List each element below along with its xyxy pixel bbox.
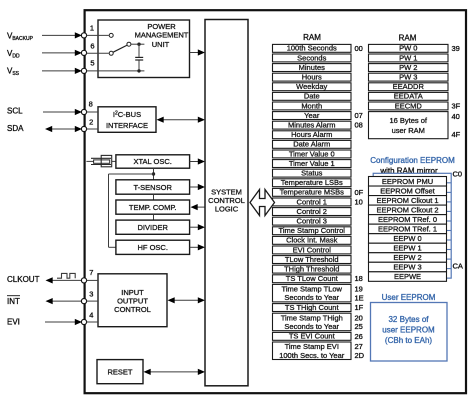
address 26 <box>355 332 363 341</box>
address 0F <box>355 188 364 197</box>
address 27 <box>355 342 363 351</box>
wire pin8 to I2C block <box>86 111 98 113</box>
svg-text:1F: 1F <box>355 303 364 312</box>
register 100th Seconds <box>273 44 352 53</box>
svg-text:19: 19 <box>355 285 363 294</box>
I2C-bus interface block <box>98 107 156 133</box>
register PW 2 <box>369 63 449 72</box>
register PW 1 <box>369 53 449 62</box>
svg-text:TS EVI Count: TS EVI Count <box>289 332 336 341</box>
wire VBACKUP input <box>42 32 82 38</box>
pin 4 circle <box>81 319 86 324</box>
svg-text:2: 2 <box>89 117 93 126</box>
wire pin7 to IOC <box>86 279 98 281</box>
register Date <box>273 92 352 101</box>
wire INT output <box>46 298 85 304</box>
address 00 <box>355 44 363 53</box>
register Seconds <box>273 53 352 62</box>
svg-text:SDA: SDA <box>7 124 24 133</box>
svg-text:CLKOUT: CLKOUT <box>7 275 40 284</box>
svg-text:Year: Year <box>304 111 320 120</box>
pin label SCL <box>7 107 23 116</box>
EEPROM register EEPROM TRef. 1 <box>369 224 447 234</box>
wire EVI input <box>45 319 82 325</box>
svg-text:User EEPROM: User EEPROM <box>382 293 436 302</box>
svg-text:CA: CA <box>453 262 463 271</box>
register EEDATA <box>369 92 449 101</box>
EEPROM register EEPROM TRef. 0 <box>369 215 447 225</box>
svg-text:25: 25 <box>355 322 363 331</box>
svg-text:RESET: RESET <box>107 367 132 376</box>
register TLow Threshold <box>273 255 352 264</box>
svg-text:4F: 4F <box>452 130 461 139</box>
svg-text:0F: 0F <box>355 188 364 197</box>
svg-text:1: 1 <box>90 24 94 33</box>
pin label VBACKUP <box>7 32 34 43</box>
svg-text:TLow Threshold: TLow Threshold <box>285 255 339 264</box>
pin label SDA <box>7 124 24 133</box>
EEPROM register EEPW 2 <box>369 253 447 263</box>
address 4F <box>452 130 461 139</box>
pin number 4 <box>89 310 93 319</box>
svg-text:EEPROM Offset: EEPROM Offset <box>380 186 435 195</box>
switch contact VDD <box>86 51 113 55</box>
register Time Stamp THigh / Seconds to Year <box>273 313 352 331</box>
pin label VSS <box>7 66 20 77</box>
wire VDD input <box>42 50 82 56</box>
XTAL OSC block <box>116 155 190 168</box>
EEPROM register EEPW 1 <box>369 243 447 253</box>
svg-text:EEPROM Clkout 1: EEPROM Clkout 1 <box>376 196 438 205</box>
pin number 7 <box>89 268 93 277</box>
address 1F <box>355 303 364 312</box>
pin label CLKOUT <box>7 275 40 284</box>
svg-text:18: 18 <box>355 274 363 283</box>
svg-text:INT: INT <box>7 297 20 306</box>
pin label INT (overline) <box>7 296 20 306</box>
register Temperature LSBs <box>273 178 352 187</box>
svg-text:EVI Control: EVI Control <box>293 245 332 254</box>
svg-text:5: 5 <box>90 59 94 68</box>
register EEADDR <box>369 82 449 91</box>
svg-text:Minutes Alarm: Minutes Alarm <box>288 121 336 130</box>
arrow IOC to system control logic bidirectional <box>168 297 206 303</box>
svg-text:6: 6 <box>90 41 94 50</box>
svg-text:Timer Value 1: Timer Value 1 <box>289 159 335 168</box>
register Time Stamp Control <box>273 226 352 235</box>
svg-text:XTAL OSC.: XTAL OSC. <box>134 157 172 166</box>
svg-text:T-SENSOR: T-SENSOR <box>134 183 173 192</box>
address 2D <box>355 351 365 360</box>
pin label VDD <box>7 49 20 60</box>
wire pin2 to I2C block <box>86 128 98 130</box>
svg-text:PW 0: PW 0 <box>399 44 417 53</box>
svg-text:UNIT: UNIT <box>152 40 170 49</box>
svg-text:EEPW 0: EEPW 0 <box>393 234 421 243</box>
pin 5 circle <box>81 68 86 73</box>
register Status <box>273 169 352 178</box>
register Hours <box>273 73 352 82</box>
register Weekday <box>273 82 352 91</box>
register Control 3 <box>273 217 352 226</box>
address 18 <box>355 274 363 283</box>
arrow DIVIDER to system control logic <box>190 224 205 230</box>
register EECMD <box>369 101 449 110</box>
svg-text:Temperature LSBs: Temperature LSBs <box>281 178 343 187</box>
svg-text:32 Bytes of: 32 Bytes of <box>388 315 429 324</box>
svg-text:10: 10 <box>355 197 363 206</box>
HF OSC block <box>116 240 190 254</box>
wire junction to HF OSC <box>109 174 154 247</box>
svg-text:Hours Alarm: Hours Alarm <box>291 130 332 139</box>
svg-text:EEPROM Clkout 2: EEPROM Clkout 2 <box>376 205 438 214</box>
address C0 <box>453 170 463 179</box>
EEPROM register EEPROM PMU <box>369 177 447 187</box>
pin 8 circle <box>81 109 86 114</box>
register Hours Alarm <box>273 130 352 139</box>
EEPROM register EEPWE <box>369 272 447 282</box>
svg-text:Month: Month <box>301 101 322 110</box>
svg-text:I2C-BUS: I2C-BUS <box>113 110 141 119</box>
svg-text:Seconds to Year: Seconds to Year <box>284 293 339 302</box>
arrow system control logic to TEMP COMP <box>191 204 206 210</box>
register Time Stamp EVI / 100th Secs. to Year <box>273 342 352 360</box>
svg-text:16 Bytes of: 16 Bytes of <box>389 116 427 125</box>
register Month <box>273 101 352 110</box>
svg-text:00: 00 <box>355 44 363 53</box>
svg-text:HF OSC.: HF OSC. <box>137 243 167 252</box>
T-SENSOR block <box>116 180 190 194</box>
reset block <box>97 360 143 384</box>
switch contact VBACKUP <box>86 33 113 37</box>
svg-text:RAM: RAM <box>303 33 321 42</box>
address 40 <box>452 112 460 121</box>
svg-text:Date: Date <box>304 92 320 101</box>
register Time Stamp TLow / Seconds to Year <box>273 284 352 302</box>
arrow I2C to system control logic bidirectional <box>157 117 206 123</box>
register EVI Control <box>273 245 352 254</box>
svg-text:TS TLow Count: TS TLow Count <box>286 274 339 283</box>
register Date Alarm <box>273 140 352 149</box>
EEPROM register EEPW 0 <box>369 234 447 244</box>
svg-text:EEPW 1: EEPW 1 <box>393 244 421 253</box>
chip outline <box>85 10 466 393</box>
register Control 2 <box>273 207 352 216</box>
arrow XTAL OSC to system control logic <box>190 158 205 164</box>
svg-text:PW 1: PW 1 <box>399 53 417 62</box>
svg-text:Time Stamp Control: Time Stamp Control <box>279 226 346 235</box>
pin number 6 <box>90 41 94 50</box>
pin 1 circle <box>81 33 86 38</box>
pin 2 circle <box>81 126 86 131</box>
svg-text:2D: 2D <box>355 351 365 360</box>
wire VSS inside PMU <box>86 69 144 72</box>
register Clock Int. Mask <box>273 236 352 245</box>
svg-text:8: 8 <box>89 99 93 108</box>
pin number 5 <box>90 59 94 68</box>
svg-text:Seconds to Year: Seconds to Year <box>284 322 339 331</box>
svg-text:C0: C0 <box>453 170 463 179</box>
address 08 <box>355 121 363 130</box>
address 20 <box>355 313 363 322</box>
quartz crystal symbol <box>86 155 116 166</box>
RAM title (registers) <box>303 33 321 42</box>
svg-text:LOGIC: LOGIC <box>215 205 239 214</box>
arrow HF OSC to system control logic <box>190 244 205 250</box>
register PW 0 <box>369 44 449 53</box>
svg-text:Time Stamp EVI: Time Stamp EVI <box>285 342 339 351</box>
system control logic block <box>205 20 248 386</box>
register Minutes Alarm <box>273 121 352 130</box>
svg-text:EEADDR: EEADDR <box>393 82 425 91</box>
svg-text:MANAGEMENT: MANAGEMENT <box>135 30 189 39</box>
svg-text:40: 40 <box>452 112 460 121</box>
address 10 <box>355 197 363 206</box>
svg-text:Timer Value 0: Timer Value 0 <box>289 149 335 158</box>
input output control block <box>98 274 167 327</box>
svg-text:EEDATA: EEDATA <box>394 92 423 101</box>
register TS EVI Count <box>273 332 352 341</box>
svg-text:20: 20 <box>355 313 363 322</box>
svg-text:TEMP. COMP.: TEMP. COMP. <box>129 203 177 212</box>
bidirectional bus arrow SCL-RAM <box>250 190 275 216</box>
address 1E <box>355 293 364 302</box>
with RAM mirror subtitle <box>379 166 438 175</box>
pin number 2 <box>89 117 93 126</box>
wire VSS input <box>42 68 82 74</box>
wire XTAL to T-SENSOR with junction <box>152 168 155 180</box>
svg-text:PW 2: PW 2 <box>399 63 417 72</box>
register Timer Value 0 <box>273 149 352 158</box>
user EEPROM block <box>371 303 448 362</box>
svg-text:(CBh to EAh): (CBh to EAh) <box>385 336 432 345</box>
register THigh Threshold <box>273 265 352 274</box>
pin label EVI <box>7 318 20 327</box>
EEPROM mirror shadow box <box>373 173 451 278</box>
wire pin3 to IOC <box>86 300 98 302</box>
register Control 1 <box>273 197 352 206</box>
wire TEMP COMP to DIVIDER <box>153 214 155 220</box>
power management unit block <box>98 20 190 78</box>
backup capacitor <box>135 44 143 71</box>
EEPROM register EEPW 3 <box>369 262 447 272</box>
svg-text:Weekday: Weekday <box>296 82 327 91</box>
svg-text:Control 2: Control 2 <box>297 207 327 216</box>
User EEPROM title <box>382 293 436 302</box>
svg-text:27: 27 <box>355 342 363 351</box>
TEMP COMP block <box>116 200 190 214</box>
pin 6 circle <box>81 50 86 55</box>
svg-text:EEPROM TRef. 0: EEPROM TRef. 0 <box>378 215 437 224</box>
svg-text:EEPWE: EEPWE <box>394 272 421 281</box>
wire SDA bidirectional <box>45 126 82 132</box>
register PW 3 <box>369 73 449 82</box>
svg-text:07: 07 <box>355 111 363 120</box>
svg-text:EEPW 2: EEPW 2 <box>393 253 421 262</box>
svg-text:3: 3 <box>89 290 93 299</box>
register Timer Value 1 <box>273 159 352 168</box>
address 25 <box>355 322 363 331</box>
register TS TLow Count <box>273 274 352 283</box>
svg-text:user RAM: user RAM <box>392 126 425 135</box>
svg-text:4: 4 <box>89 310 93 319</box>
svg-text:EECMD: EECMD <box>395 101 423 110</box>
svg-text:THigh Threshold: THigh Threshold <box>284 265 339 274</box>
Configuration EEPROM title <box>370 156 455 165</box>
svg-text:Seconds: Seconds <box>297 53 326 62</box>
register block 16 Bytes of user RAM <box>369 112 449 139</box>
clock waveform symbol <box>57 273 75 278</box>
svg-text:INTERFACE: INTERFACE <box>106 121 148 130</box>
svg-text:Control 1: Control 1 <box>297 197 327 206</box>
wire CLKOUT output <box>46 277 85 283</box>
svg-text:user EEPROM: user EEPROM <box>382 325 435 334</box>
pin 7 circle <box>81 278 86 283</box>
svg-text:PW 3: PW 3 <box>399 73 417 82</box>
register TS THigh Count <box>273 303 352 312</box>
DIVIDER block <box>116 220 190 234</box>
svg-text:Temperature MSBs: Temperature MSBs <box>280 188 344 197</box>
svg-text:100th Seconds: 100th Seconds <box>287 44 337 53</box>
svg-text:EEPW 3: EEPW 3 <box>393 263 421 272</box>
pin 3 circle <box>81 299 86 304</box>
svg-text:Configuration EEPROM: Configuration EEPROM <box>370 156 455 165</box>
svg-text:Hours: Hours <box>302 73 322 82</box>
svg-text:Control 3: Control 3 <box>297 217 327 226</box>
wire pin4 to IOC <box>86 321 98 323</box>
svg-text:Clock Int. Mask: Clock Int. Mask <box>286 236 338 245</box>
svg-text:EVI: EVI <box>7 318 20 327</box>
switch blade <box>113 42 144 52</box>
EEPROM register EEPROM Offset <box>369 186 447 196</box>
svg-text:RAM: RAM <box>399 33 417 42</box>
address 19 <box>355 285 363 294</box>
svg-text:Time Stamp THigh: Time Stamp THigh <box>281 313 343 322</box>
pin number 8 <box>89 99 93 108</box>
address 07 <box>355 111 363 120</box>
svg-text:08: 08 <box>355 121 363 130</box>
svg-text:39: 39 <box>452 44 460 53</box>
pin number 1 <box>90 24 94 33</box>
pin number 3 <box>89 290 93 299</box>
svg-text:Minutes: Minutes <box>299 63 326 72</box>
svg-text:SCL: SCL <box>7 107 23 116</box>
arrow T-SENSOR to system control logic <box>190 184 205 190</box>
svg-text:7: 7 <box>89 268 93 277</box>
address 3F <box>452 101 461 110</box>
arrow RESET to system control logic bidirectional <box>144 369 206 375</box>
address CA <box>453 262 463 271</box>
svg-text:Date Alarm: Date Alarm <box>293 140 330 149</box>
wire SCL input <box>43 109 82 115</box>
address 39 <box>452 44 460 53</box>
arrow PMU to system control logic <box>190 49 205 55</box>
svg-text:100th Secs. to Year: 100th Secs. to Year <box>279 351 345 360</box>
svg-text:26: 26 <box>355 332 363 341</box>
svg-text:3F: 3F <box>452 101 461 110</box>
RAM title (password and EEPROM access) <box>399 33 417 42</box>
svg-text:Status: Status <box>301 169 323 178</box>
register Minutes <box>273 63 352 72</box>
svg-text:EEPROM PMU: EEPROM PMU <box>382 177 433 186</box>
svg-text:DIVIDER: DIVIDER <box>137 223 168 232</box>
wire T-SENSOR to TEMP COMP <box>153 194 155 200</box>
svg-text:CONTROL: CONTROL <box>114 305 151 314</box>
svg-text:TS THigh Count: TS THigh Count <box>285 303 340 312</box>
EEPROM register EEPROM Clkout 1 <box>369 196 447 206</box>
register Temperature MSBs <box>273 188 352 197</box>
svg-text:1E: 1E <box>355 293 364 302</box>
svg-text:Time Stamp TLow: Time Stamp TLow <box>282 285 343 294</box>
svg-text:EEPROM TRef. 1: EEPROM TRef. 1 <box>378 224 437 233</box>
register Year <box>273 111 352 120</box>
EEPROM register EEPROM Clkout 2 <box>369 205 447 215</box>
